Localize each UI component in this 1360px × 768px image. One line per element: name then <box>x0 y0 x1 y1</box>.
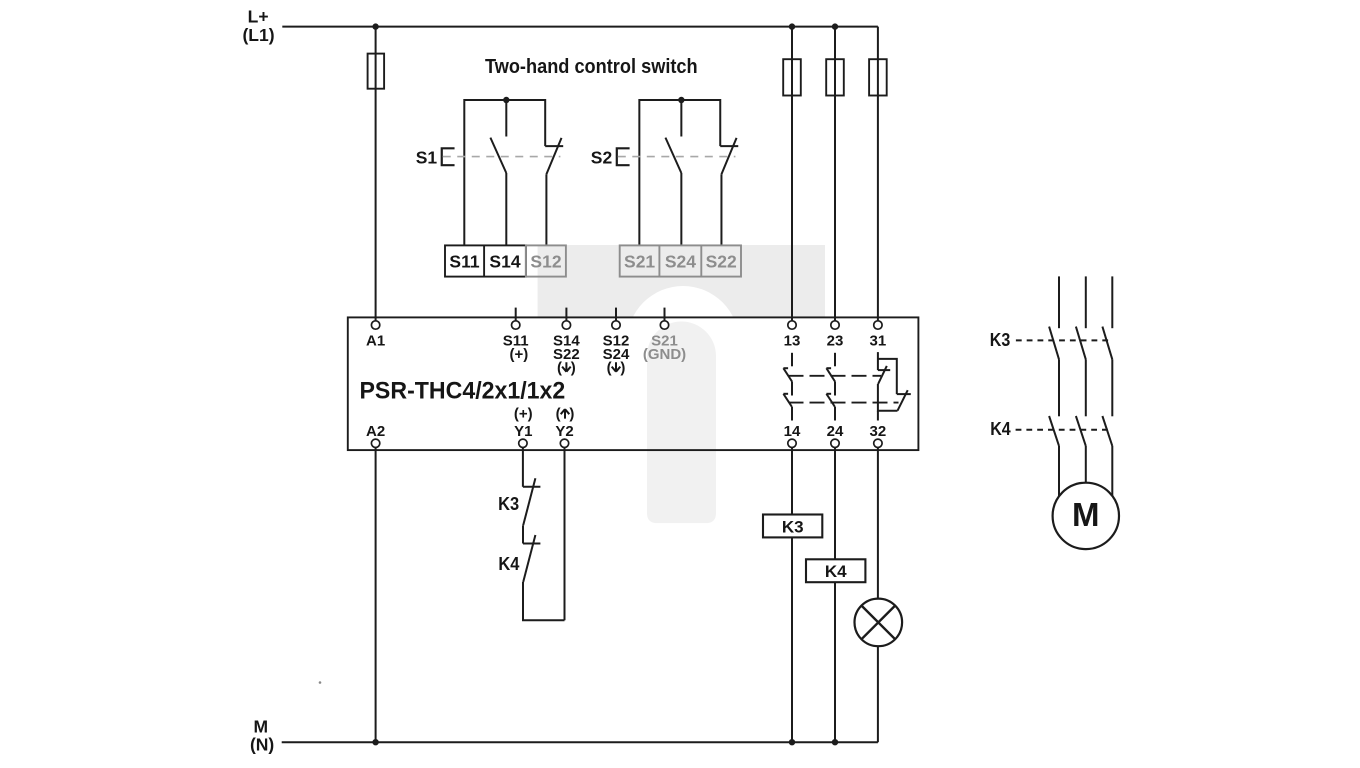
svg-text:(+): (+) <box>514 406 533 423</box>
svg-text:(N): (N) <box>250 735 274 755</box>
svg-text:PSR-THC4/2x1/1x2: PSR-THC4/2x1/1x2 <box>360 378 566 405</box>
svg-text:(: ( <box>556 406 561 423</box>
svg-text:): ) <box>620 360 625 377</box>
svg-text:A2: A2 <box>366 423 385 440</box>
svg-text:S12: S12 <box>530 251 561 271</box>
svg-text:32: 32 <box>870 423 887 440</box>
svg-text:13: 13 <box>784 332 801 349</box>
svg-text:K3: K3 <box>782 517 804 536</box>
svg-text:23: 23 <box>827 332 844 349</box>
svg-text:Y2: Y2 <box>555 423 573 440</box>
svg-text:A1: A1 <box>366 332 385 349</box>
svg-text:K4: K4 <box>825 562 847 581</box>
svg-text:K3: K3 <box>498 494 519 514</box>
svg-text:M: M <box>254 717 269 737</box>
svg-text:K3: K3 <box>990 330 1011 350</box>
svg-text:(GND): (GND) <box>643 346 686 363</box>
svg-text:): ) <box>571 360 576 377</box>
svg-text:(: ( <box>607 360 612 377</box>
svg-text:L+: L+ <box>248 7 269 27</box>
svg-text:31: 31 <box>870 332 887 349</box>
svg-text:S22: S22 <box>706 251 737 271</box>
svg-text:(: ( <box>557 360 562 377</box>
svg-text:S21: S21 <box>624 251 655 271</box>
svg-text:S14: S14 <box>489 251 520 271</box>
svg-text:S11: S11 <box>449 251 479 271</box>
svg-text:Y1: Y1 <box>514 423 532 440</box>
svg-text:S1: S1 <box>416 148 438 168</box>
svg-text:S2: S2 <box>591 148 613 168</box>
svg-text:(+): (+) <box>510 346 529 363</box>
svg-text:M: M <box>1072 496 1100 533</box>
svg-text:): ) <box>569 406 574 423</box>
svg-text:K4: K4 <box>498 554 519 574</box>
svg-text:(L1): (L1) <box>242 25 274 45</box>
svg-text:K4: K4 <box>990 419 1011 439</box>
svg-text:14: 14 <box>784 423 801 440</box>
svg-text:S24: S24 <box>665 251 696 271</box>
svg-text:24: 24 <box>827 423 844 440</box>
svg-text:Two-hand control switch: Two-hand control switch <box>485 56 698 78</box>
